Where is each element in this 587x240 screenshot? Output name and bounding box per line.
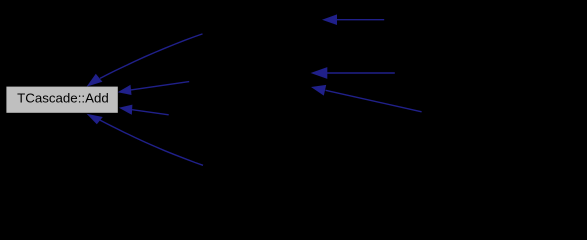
- edge 5 bottom curve into box bottom wire: [100, 120, 203, 165]
- edge 5 arrowhead: [87, 114, 103, 124]
- edge 3 short line into box right upper wire: [131, 82, 189, 90]
- edge 4 arrowhead: [119, 105, 132, 115]
- edge 2 arrowhead: [87, 74, 103, 87]
- edge 1 arrowhead: [322, 14, 337, 25]
- node TCascade::Add box: [6, 87, 117, 113]
- edge 2 long curve into box top wire: [100, 34, 203, 79]
- edge B diagonal arrow (node->node) wire: [326, 90, 422, 112]
- edge A arrowhead: [311, 67, 328, 79]
- edge 1 top horizontal arrow (node->node) wire: [336, 19, 384, 21]
- svg-text:TCascade::Add: TCascade::Add: [17, 91, 109, 106]
- edge 3 arrowhead: [118, 85, 132, 95]
- edge 4 short line into box right lower wire: [132, 110, 169, 115]
- edge A middle horizontal arrow (node->node) wire: [326, 72, 395, 74]
- edge B arrowhead: [311, 85, 326, 96]
